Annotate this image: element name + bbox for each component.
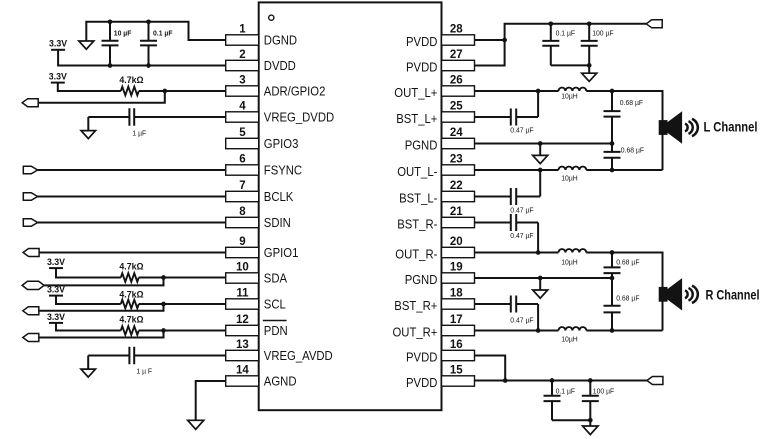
svg-text:PVDD: PVDD xyxy=(406,60,437,75)
svg-text:SCL: SCL xyxy=(264,297,286,312)
svg-text:19: 19 xyxy=(450,261,463,273)
svg-text:6: 6 xyxy=(239,153,245,165)
svg-text:4.7kΩ: 4.7kΩ xyxy=(119,314,143,324)
svg-text:AGND: AGND xyxy=(264,374,297,389)
svg-text:R Channel: R Channel xyxy=(706,287,760,302)
svg-text:BCLK: BCLK xyxy=(264,189,294,204)
svg-text:PGND: PGND xyxy=(405,272,438,287)
svg-text:3: 3 xyxy=(239,74,245,86)
svg-text:10µH: 10µH xyxy=(561,92,578,101)
svg-text:3.3V: 3.3V xyxy=(47,257,65,267)
svg-text:4.7kΩ: 4.7kΩ xyxy=(119,262,143,272)
svg-text:0.1 µF: 0.1 µF xyxy=(153,28,173,37)
svg-text:GPIO3: GPIO3 xyxy=(264,136,299,151)
svg-text:VREG_DVDD: VREG_DVDD xyxy=(264,110,334,125)
svg-text:18: 18 xyxy=(450,287,463,299)
svg-text:BST_L-: BST_L- xyxy=(399,191,437,206)
svg-text:4.7kΩ: 4.7kΩ xyxy=(119,289,143,299)
svg-text:1: 1 xyxy=(239,23,246,35)
svg-text:1 µ F: 1 µ F xyxy=(136,366,152,375)
svg-text:0.68 µF: 0.68 µF xyxy=(620,98,644,107)
svg-text:GPIO1: GPIO1 xyxy=(264,245,299,260)
svg-text:27: 27 xyxy=(450,49,463,61)
svg-text:PVDD: PVDD xyxy=(406,34,437,49)
svg-text:16: 16 xyxy=(450,339,463,351)
svg-text:11: 11 xyxy=(236,287,249,299)
svg-text:24: 24 xyxy=(450,127,463,139)
svg-text:1 µF: 1 µF xyxy=(132,128,146,137)
svg-text:3.3V: 3.3V xyxy=(49,71,67,81)
svg-text:0.68 µF: 0.68 µF xyxy=(621,145,645,154)
svg-text:OUT_L-: OUT_L- xyxy=(397,164,437,179)
svg-text:21: 21 xyxy=(450,206,463,218)
svg-text:3.3V: 3.3V xyxy=(47,312,65,322)
svg-text:DGND: DGND xyxy=(264,33,297,48)
svg-text:17: 17 xyxy=(450,314,463,326)
svg-text:VREG_AVDD: VREG_AVDD xyxy=(264,348,333,363)
svg-text:0.47 µF: 0.47 µF xyxy=(510,205,534,214)
svg-text:FSYNC: FSYNC xyxy=(264,163,302,178)
svg-text:0.1 µF: 0.1 µF xyxy=(556,29,576,38)
svg-text:OUT_R-: OUT_R- xyxy=(395,247,437,262)
svg-text:4: 4 xyxy=(239,100,246,112)
svg-text:3.3V: 3.3V xyxy=(49,39,67,49)
svg-text:OUT_R+: OUT_R+ xyxy=(393,325,438,340)
svg-text:0.1 µF: 0.1 µF xyxy=(556,387,576,396)
svg-text:0.68 µF: 0.68 µF xyxy=(616,258,640,267)
svg-text:L Channel: L Channel xyxy=(704,120,758,135)
svg-text:PGND: PGND xyxy=(405,138,438,153)
svg-text:10 µF: 10 µF xyxy=(114,28,132,37)
svg-text:OUT_L+: OUT_L+ xyxy=(394,85,437,100)
svg-text:BST_R-: BST_R- xyxy=(397,217,437,232)
svg-text:100 µF: 100 µF xyxy=(592,29,614,38)
svg-text:14: 14 xyxy=(236,364,249,376)
svg-text:100 µF: 100 µF xyxy=(593,387,615,396)
svg-text:10µH: 10µH xyxy=(561,258,578,267)
svg-text:2: 2 xyxy=(239,49,245,61)
svg-text:10µH: 10µH xyxy=(561,334,578,343)
svg-text:26: 26 xyxy=(450,74,463,86)
svg-text:3.3V: 3.3V xyxy=(47,285,65,295)
svg-text:BST_L+: BST_L+ xyxy=(396,111,437,126)
svg-text:PDN: PDN xyxy=(264,323,288,338)
svg-text:PVDD: PVDD xyxy=(406,375,437,390)
svg-text:ADR/GPIO2: ADR/GPIO2 xyxy=(264,84,326,99)
svg-text:23: 23 xyxy=(450,153,463,165)
svg-text:0.47 µF: 0.47 µF xyxy=(510,231,534,240)
svg-text:0.68 µF: 0.68 µF xyxy=(616,293,640,302)
svg-text:12: 12 xyxy=(236,314,249,326)
svg-text:13: 13 xyxy=(236,339,249,351)
svg-text:10: 10 xyxy=(236,261,249,273)
svg-text:BST_R+: BST_R+ xyxy=(394,298,437,313)
svg-text:SDA: SDA xyxy=(264,271,288,286)
svg-text:0.47 µF: 0.47 µF xyxy=(510,316,534,325)
svg-text:SDIN: SDIN xyxy=(264,215,291,230)
svg-text:15: 15 xyxy=(450,364,463,376)
svg-text:PVDD: PVDD xyxy=(406,350,437,365)
svg-text:22: 22 xyxy=(450,180,463,192)
svg-text:0.47 µF: 0.47 µF xyxy=(510,126,534,135)
svg-text:25: 25 xyxy=(450,100,463,112)
svg-text:DVDD: DVDD xyxy=(264,58,296,73)
svg-text:7: 7 xyxy=(239,180,245,192)
svg-text:5: 5 xyxy=(239,127,246,139)
svg-text:10µH: 10µH xyxy=(561,174,578,183)
svg-text:8: 8 xyxy=(239,206,246,218)
svg-text:9: 9 xyxy=(239,236,245,248)
svg-text:28: 28 xyxy=(450,23,463,35)
svg-text:4.7kΩ: 4.7kΩ xyxy=(119,75,143,85)
svg-text:20: 20 xyxy=(450,236,463,248)
